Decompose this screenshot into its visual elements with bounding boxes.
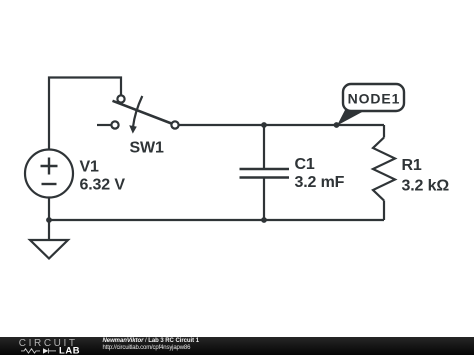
footer bar [0,337,474,355]
svg-text:C1: C1 [295,156,315,173]
wire top-left loop [49,78,121,151]
footer title text [103,338,200,344]
junction node dot V1 bottom [46,217,52,223]
footer url text [103,345,191,351]
node NODE1 callout tail [337,110,364,126]
ground [30,220,68,259]
wire right vertical top [383,125,385,138]
node NODE1 callout box [343,84,404,111]
capacitor C1 [240,125,290,220]
voltage source V1 [25,150,73,221]
CircuitLab logo [0,337,100,355]
wire bottom rail [49,219,384,221]
switch arrowhead [129,125,137,133]
wire right vertical bottom [383,201,385,221]
svg-text:SW1: SW1 [130,140,164,157]
svg-text:V1: V1 [80,159,100,176]
svg-text:R1: R1 [402,157,422,174]
svg-text:3.2 mF: 3.2 mF [295,174,345,191]
resistor R1 [373,138,395,201]
junction node dot C1 top [261,122,267,128]
svg-text:3.2 kΩ: 3.2 kΩ [402,178,450,195]
wire top rail [179,124,385,126]
svg-text:LAB: LAB [59,345,80,355]
svg-text:6.32 V: 6.32 V [80,177,126,194]
node NODE1 junction dot [334,122,340,128]
junction node dot C1 bottom [261,217,267,223]
switch SW1 [97,95,179,128]
svg-text:NODE1: NODE1 [348,91,401,107]
